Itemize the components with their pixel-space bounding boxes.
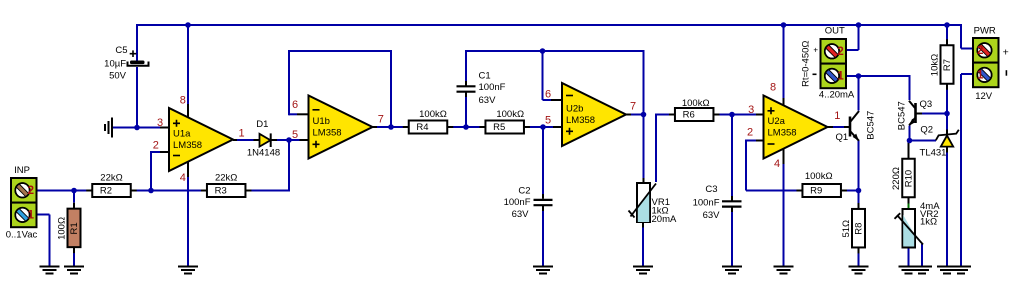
resistor R8 51 ohm	[858, 203, 860, 209]
trimmer VR2 1k	[903, 209, 916, 248]
svg-text:8: 8	[770, 82, 776, 94]
wire node to TL431 cathode	[946, 114, 948, 130]
capacitor C1 100nF	[457, 85, 476, 87]
svg-text:100kΩ: 100kΩ	[419, 109, 447, 120]
resistor R6 100k	[675, 108, 714, 121]
svg-text:C3: C3	[705, 184, 717, 195]
junction U1b output	[388, 124, 394, 130]
svg-text:Q3: Q3	[920, 99, 933, 110]
pin stub R10 top	[908, 142, 910, 153]
svg-text:C5: C5	[115, 45, 127, 56]
pin stub U2b pin6	[551, 99, 563, 101]
pin stub U1a pin8	[187, 104, 189, 119]
svg-text:1: 1	[238, 127, 244, 139]
svg-text:+: +	[1003, 46, 1009, 58]
svg-text:1N4148: 1N4148	[247, 148, 280, 159]
wire top VCC rail	[137, 24, 961, 26]
wire PWR pin1 to ground	[960, 74, 962, 266]
svg-text:U1a: U1a	[173, 129, 191, 140]
svg-text:100kΩ: 100kΩ	[682, 98, 710, 109]
svg-text:10µF: 10µF	[104, 59, 126, 70]
svg-text:100nF: 100nF	[504, 197, 531, 208]
wire C1 bottom to R4-R5 row	[465, 97, 467, 128]
wire wiper corner to R6	[655, 114, 670, 116]
wire U2a pin2 drop	[745, 140, 747, 191]
op-amp U1a LM358	[169, 108, 233, 171]
svg-text:100kΩ: 100kΩ	[805, 171, 833, 182]
wire node to R1	[73, 190, 75, 203]
wire C5 top drop	[136, 24, 138, 62]
svg-text:63V: 63V	[512, 209, 530, 220]
svg-text:U1b: U1b	[313, 116, 330, 127]
wire R6 to U2a pin3 with C3 tap	[719, 114, 756, 116]
ground VR2	[899, 266, 919, 268]
svg-text:2: 2	[977, 45, 983, 57]
svg-text:LM358: LM358	[313, 127, 342, 138]
op-amp U2a LM358	[764, 96, 828, 159]
node A Q3 emitter R10 TL431 ref	[907, 138, 913, 144]
wire Q3 emitter drop	[909, 126, 911, 142]
wire VR2 to ground	[908, 248, 910, 266]
wire OUT pin1 to Q3 collector	[846, 75, 910, 77]
wire PWR pin1 horizontal	[961, 73, 974, 75]
wire INP pin1 horizontal	[37, 214, 50, 216]
svg-text:12V: 12V	[975, 91, 993, 102]
wire rail to R7	[946, 24, 948, 40]
svg-text:1: 1	[977, 69, 984, 81]
junction U2b pin5 C2	[540, 124, 546, 130]
wire C3 top drop	[731, 114, 733, 197]
svg-text:C1: C1	[479, 71, 491, 82]
ground TL431	[937, 266, 957, 268]
svg-text:100nF: 100nF	[693, 198, 720, 209]
svg-text:R5: R5	[493, 122, 505, 133]
wire U2a pin2 horizontal	[746, 140, 756, 142]
junction R7 on rail	[944, 22, 950, 28]
wire R8 to ground	[858, 253, 860, 267]
wire U1a pin2 drop to R3 row	[150, 151, 152, 191]
svg-text:51Ω: 51Ω	[841, 220, 852, 238]
svg-text:22kΩ: 22kΩ	[215, 173, 237, 184]
junction R6 C3 node	[729, 112, 735, 118]
capacitor C5	[130, 61, 145, 65]
svg-text:Q2: Q2	[920, 125, 933, 136]
wire node to R8	[858, 191, 860, 205]
wire INP pin2 to R2	[37, 190, 88, 192]
wire PWR pin2 horizontal	[961, 48, 974, 50]
wire Q3 base to TL431 node	[922, 113, 948, 115]
svg-text:R1: R1	[69, 222, 80, 234]
svg-text:100kΩ: 100kΩ	[496, 109, 524, 120]
wire D1 node drop	[288, 140, 290, 191]
wire to R9	[746, 190, 798, 192]
svg-text:R8: R8	[854, 223, 865, 235]
ground C2	[533, 266, 553, 268]
wire rail to PWR pin2	[960, 24, 962, 49]
svg-text:1kΩ: 1kΩ	[920, 217, 937, 228]
ground INP pin1	[40, 266, 60, 268]
wire U1a pin8	[187, 24, 189, 104]
svg-text:8: 8	[180, 95, 186, 107]
pin stub U1b pin6	[297, 113, 310, 115]
wire R4 to R5 with C1 tap	[453, 126, 481, 128]
svg-text:22kΩ: 22kΩ	[100, 173, 122, 184]
wire U1b feedback top	[288, 50, 392, 52]
svg-text:2: 2	[747, 127, 753, 139]
svg-text:4: 4	[774, 158, 780, 170]
ground R1	[64, 266, 84, 268]
svg-text:Rt=0-450Ω: Rt=0-450Ω	[801, 40, 812, 86]
svg-text:U2b: U2b	[566, 104, 583, 115]
svg-text:C2: C2	[518, 186, 530, 197]
svg-text:100Ω: 100Ω	[57, 217, 68, 240]
wire U2b pin6 drop	[542, 50, 544, 100]
wire U1b pin6 corner	[289, 113, 297, 115]
pin stub U1b pin5	[300, 139, 310, 141]
capacitor C2 100nF	[534, 199, 553, 201]
wire U1a pin2 horizontal	[151, 151, 160, 153]
svg-text:7: 7	[378, 113, 384, 125]
resistor R10 220 ohm	[908, 153, 910, 159]
ground VR1	[633, 266, 653, 268]
wire U2b feedback top	[465, 50, 645, 52]
junction C5-ground-pin3	[134, 125, 140, 131]
wire Q1 emitter drop	[858, 140, 860, 191]
green stub R10-VR2	[908, 204, 910, 210]
svg-text:6: 6	[545, 88, 551, 100]
shunt regulator Q2 TL431	[941, 136, 953, 147]
wire VR1 to ground	[642, 228, 644, 267]
pin stub U1a pin2	[160, 151, 170, 153]
junction R1 tap	[71, 188, 77, 194]
wire ground to U1a pin3	[112, 127, 160, 129]
svg-text:2: 2	[153, 139, 159, 151]
pin stub U2a pin3	[756, 114, 765, 116]
wire R9 to Q1 emitter node	[841, 190, 860, 192]
svg-text:4: 4	[180, 172, 186, 184]
resistor R4 100k	[409, 121, 448, 134]
ground U2a pin4	[774, 266, 794, 268]
ground U1a pin4	[178, 266, 198, 268]
ground R8	[849, 266, 869, 268]
junction R8 R9 emitter	[856, 188, 862, 194]
ground C3	[722, 266, 742, 268]
svg-text:R9: R9	[810, 186, 822, 197]
svg-text:7: 7	[630, 101, 636, 113]
svg-text:10kΩ: 10kΩ	[930, 54, 941, 76]
svg-text:R6: R6	[683, 110, 695, 121]
svg-text:U2a: U2a	[768, 116, 786, 127]
svg-text:50V: 50V	[109, 71, 127, 82]
pin stub U2a pin2	[756, 140, 765, 142]
wire VR2 wiper to ground	[921, 244, 923, 266]
wire U2b feedback right	[643, 50, 645, 116]
op-amp U1b LM358	[309, 96, 373, 159]
resistor R7 10k	[946, 39, 948, 45]
junction U2b pin6 on feedback rail	[540, 48, 546, 54]
svg-text:LM358: LM358	[173, 140, 202, 151]
svg-text:63V: 63V	[479, 95, 497, 106]
svg-text:3: 3	[748, 104, 754, 116]
svg-text:5: 5	[545, 114, 551, 126]
resistor R3 22k	[207, 184, 246, 197]
ground VR2 wiper	[912, 266, 932, 268]
terminal INP	[11, 178, 37, 203]
svg-text:PWR: PWR	[974, 26, 996, 37]
trimmer VR1 1k	[637, 183, 650, 222]
junction OUT pin2 on rail	[856, 22, 862, 28]
svg-text:1: 1	[28, 209, 35, 221]
pin stub R10 bottom	[908, 197, 910, 204]
wire U1b out to R4	[373, 126, 403, 128]
pin stub U1a pin4	[187, 160, 189, 177]
svg-text:R3: R3	[215, 186, 227, 197]
svg-text:D1: D1	[256, 119, 268, 130]
pin stub Q3 base	[917, 113, 925, 115]
wire C2 to ground	[542, 211, 544, 266]
wire R1 to ground	[73, 253, 75, 267]
svg-text:1: 1	[834, 110, 840, 122]
svg-text:3: 3	[157, 117, 163, 129]
ground PWR pin1	[951, 266, 971, 268]
wire U1a pin4 to ground	[187, 177, 189, 266]
svg-text:INP: INP	[14, 165, 30, 176]
svg-text:TL431: TL431	[920, 148, 947, 159]
transistor Q3 BC547	[914, 103, 917, 123]
wire U2b pin5 to C2	[542, 126, 544, 194]
op-amp U2b LM358	[562, 83, 626, 146]
transistor Q1 BC547	[849, 117, 852, 137]
pin stub U1a pin3	[160, 127, 170, 129]
pin stub U2b pin5	[553, 126, 563, 128]
ground left signal (U1a pin3)	[111, 118, 113, 138]
terminal OUT	[821, 39, 847, 64]
wire OUT pin2 horizontal	[846, 49, 859, 51]
capacitor C3 100nF	[722, 200, 742, 202]
wire C3 to ground	[731, 212, 733, 266]
minus PWR	[1005, 70, 1007, 76]
wire D1 to node	[277, 139, 292, 141]
wire U2a pin4 to ground	[783, 164, 785, 266]
svg-text:BC547: BC547	[866, 111, 877, 140]
resistor R1 100 ohm	[73, 203, 75, 209]
svg-text:OUT: OUT	[825, 26, 845, 37]
svg-text:LM358: LM358	[768, 127, 797, 138]
wire U1a out to D1	[236, 139, 254, 141]
wire INP pin1 to ground	[49, 215, 51, 267]
wire U2b pin6 horizontal	[543, 99, 552, 101]
junction R7 Q3 base TL431 cathode	[944, 111, 950, 117]
wire Q1 collector riser	[858, 76, 860, 111]
junction U1a pin8 on rail	[185, 22, 191, 28]
terminal PWR	[973, 38, 999, 63]
wire OUT pin2 riser	[858, 24, 860, 50]
svg-text:20mA: 20mA	[652, 214, 677, 225]
svg-text:2: 2	[837, 46, 843, 58]
svg-text:LM358: LM358	[566, 115, 595, 126]
resistor R5 100k	[485, 121, 524, 134]
wire U1b feedback right	[390, 50, 392, 128]
svg-text:R4: R4	[416, 122, 428, 133]
wire node to VR1	[643, 115, 645, 179]
wire R2 to R3	[136, 190, 203, 192]
pin stub U2a pin4	[783, 147, 785, 164]
minus OUT	[813, 73, 817, 75]
junction C1 bottom	[463, 124, 469, 130]
junction U2b output VR1	[641, 112, 647, 118]
wire U2a out to Q1 base	[833, 126, 844, 128]
svg-text:0..1Vac: 0..1Vac	[6, 230, 38, 241]
svg-text:63V: 63V	[703, 210, 721, 221]
svg-text:R2: R2	[100, 186, 112, 197]
resistor R9 100k	[802, 184, 841, 197]
junction Q1 collector OUT pin1	[856, 73, 862, 79]
svg-text:R10: R10	[904, 170, 915, 187]
wire C1 top to feedback rail	[465, 50, 467, 81]
wire R7 to node	[946, 90, 948, 115]
svg-text:BC547: BC547	[897, 101, 908, 130]
wire node to U1b pin5	[289, 139, 300, 141]
wire TL431 anode to ground	[946, 153, 948, 267]
svg-text:4..20mA: 4..20mA	[819, 89, 855, 100]
wire Q3 collector riser	[909, 75, 911, 100]
svg-text:100nF: 100nF	[479, 82, 506, 93]
svg-text:5: 5	[292, 129, 298, 141]
pin stub U2a pin8	[783, 98, 785, 108]
svg-text:6: 6	[292, 99, 298, 111]
wire VR1 wiper riser	[655, 114, 657, 183]
resistor R2 22k	[92, 184, 131, 197]
wire R3 to D1 node drop	[251, 190, 291, 192]
junction U1a pin2 feedback	[148, 188, 154, 194]
svg-text:+: +	[813, 45, 818, 54]
junction D1 output node	[286, 137, 292, 143]
diode D1 1N4148	[260, 134, 271, 147]
svg-text:220Ω: 220Ω	[891, 167, 902, 190]
junction U2a pin8 on rail	[781, 22, 787, 28]
svg-text:2: 2	[28, 185, 34, 197]
wire node to TL431 ref	[910, 140, 937, 142]
svg-text:1: 1	[837, 70, 844, 82]
wire U2a pin8	[783, 24, 785, 98]
wire R5 to U2b pin5	[530, 126, 554, 128]
wire U2b out to node	[631, 114, 645, 116]
wire U1b feedback left	[288, 50, 290, 115]
svg-text:Q1: Q1	[835, 132, 848, 143]
wire C5 to ground node	[136, 67, 138, 129]
svg-text:R7: R7	[942, 59, 953, 71]
